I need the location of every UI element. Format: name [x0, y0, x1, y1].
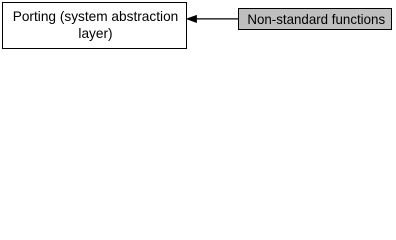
edge arrow from Non-standard functions to Porting	[0, 0, 396, 51]
wire: edge line	[196, 18, 238, 20]
arrowhead	[187, 15, 197, 22]
node: Porting (system abstraction layer)	[2, 2, 187, 49]
node: Non-standard functions	[238, 8, 393, 30]
